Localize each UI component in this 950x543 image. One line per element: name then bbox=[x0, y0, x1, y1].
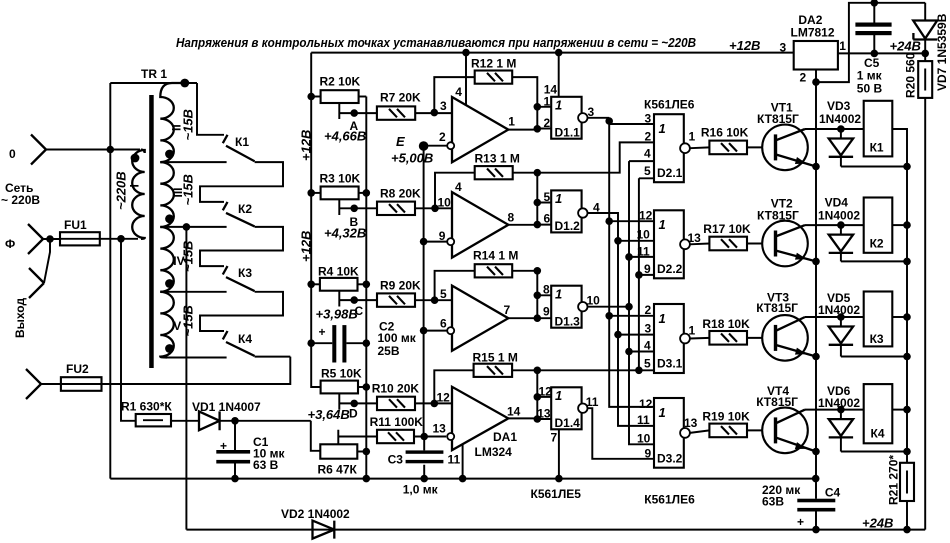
svg-text:11: 11 bbox=[586, 395, 599, 409]
capacitor C3 bbox=[420, 433, 428, 441]
op-amp U1C bbox=[452, 286, 508, 351]
wire divider vertical bbox=[365, 97, 367, 479]
svg-text:~15В: ~15В bbox=[181, 241, 196, 272]
wire D1.1 out vertical bbox=[609, 118, 654, 407]
wire top link bbox=[110, 82, 197, 84]
svg-text:1: 1 bbox=[555, 388, 562, 403]
op-amp U1A bbox=[452, 97, 508, 162]
wire output row bbox=[102, 357, 291, 384]
svg-text:1N4002: 1N4002 bbox=[818, 209, 860, 223]
relay coil K4 bbox=[864, 384, 893, 443]
svg-text:3: 3 bbox=[440, 99, 447, 113]
wire D1.4 pin7 ground bbox=[558, 429, 560, 478]
svg-text:~220В: ~220В bbox=[114, 171, 129, 210]
node R1-branch bbox=[117, 235, 125, 243]
svg-text:5: 5 bbox=[644, 357, 651, 371]
wire tap IV/V bbox=[160, 291, 226, 293]
svg-text:R11 100K: R11 100K bbox=[370, 415, 424, 429]
svg-text:13: 13 bbox=[684, 416, 698, 430]
wire D1.4 out bbox=[588, 408, 655, 459]
svg-text:12: 12 bbox=[639, 397, 653, 411]
svg-text:1: 1 bbox=[508, 115, 515, 129]
secondary winding III bbox=[160, 162, 174, 227]
svg-text:R15 1 M: R15 1 M bbox=[473, 351, 518, 365]
svg-text:FU2: FU2 bbox=[66, 362, 89, 376]
wire op3 out bbox=[508, 295, 551, 318]
op-amp U1D bbox=[452, 387, 508, 450]
svg-text:R8 20K: R8 20K bbox=[380, 187, 421, 201]
svg-text:25В: 25В bbox=[378, 344, 400, 358]
svg-text:8: 8 bbox=[508, 211, 515, 225]
svg-text:VD3: VD3 bbox=[827, 99, 851, 113]
svg-text:50 В: 50 В bbox=[857, 82, 883, 96]
wire op4 pin11 to ground bbox=[462, 444, 464, 478]
wire D2.2 pin rows bbox=[609, 221, 654, 275]
wire phase bbox=[43, 238, 60, 240]
svg-text:R10 20K: R10 20K bbox=[372, 382, 420, 396]
svg-text:1: 1 bbox=[555, 287, 562, 302]
svg-text:R16 10K: R16 10K bbox=[701, 126, 749, 140]
terminal output upper bbox=[29, 268, 44, 298]
secondary winding V bbox=[160, 292, 174, 358]
svg-text:D2.2: D2.2 bbox=[657, 262, 683, 276]
resistor R6 bbox=[320, 444, 357, 458]
node phase-branch bbox=[46, 235, 54, 243]
svg-text:D1.1: D1.1 bbox=[555, 126, 581, 140]
test point D bbox=[339, 394, 377, 410]
+12V top rail bbox=[311, 52, 794, 54]
svg-text:2: 2 bbox=[645, 130, 652, 144]
svg-text:7: 7 bbox=[551, 431, 558, 445]
svg-text:D2.1: D2.1 bbox=[657, 166, 683, 180]
core bbox=[149, 95, 154, 368]
ground rail bbox=[110, 478, 815, 480]
svg-text:К4: К4 bbox=[238, 332, 252, 346]
svg-text:D3.2: D3.2 bbox=[657, 452, 683, 466]
wire D3.1 pin rows bbox=[609, 316, 654, 352]
svg-text:10: 10 bbox=[587, 294, 601, 308]
svg-text:FU1: FU1 bbox=[64, 218, 87, 232]
svg-text:К1: К1 bbox=[870, 141, 884, 155]
svg-text:~15В: ~15В bbox=[181, 174, 196, 205]
svg-text:R4 10K: R4 10K bbox=[318, 265, 359, 279]
wire op2 direct to D2.1 pin2 bbox=[537, 142, 654, 172]
capacitor C2 bbox=[307, 339, 315, 347]
svg-text:Ф: Ф bbox=[5, 237, 15, 251]
svg-text:9: 9 bbox=[645, 447, 652, 461]
wire DA2 pin2 bbox=[815, 70, 817, 479]
svg-text:9: 9 bbox=[543, 305, 550, 319]
svg-text:D1.2: D1.2 bbox=[555, 219, 581, 233]
svg-text:10: 10 bbox=[637, 228, 651, 242]
zener VD7 bbox=[924, 3, 926, 61]
svg-text:4: 4 bbox=[455, 85, 462, 99]
svg-text:+24В: +24В bbox=[862, 516, 893, 531]
wire R20 down rail bbox=[924, 98, 926, 530]
wire op4 out bbox=[508, 397, 551, 419]
svg-text:1: 1 bbox=[555, 191, 562, 206]
capacitor C4 bbox=[815, 479, 817, 530]
node 0-junction bbox=[107, 146, 115, 154]
svg-text:5: 5 bbox=[440, 287, 447, 301]
svg-text:D: D bbox=[349, 407, 358, 421]
svg-text:К4: К4 bbox=[871, 427, 885, 441]
svg-text:6: 6 bbox=[440, 317, 447, 331]
svg-text:Выход: Выход bbox=[13, 298, 27, 338]
svg-text:9: 9 bbox=[644, 262, 651, 276]
svg-text:R12 1 M: R12 1 M bbox=[471, 57, 516, 71]
svg-text:LM324: LM324 bbox=[475, 445, 513, 459]
svg-text:12: 12 bbox=[437, 391, 451, 405]
node secondary top bbox=[180, 79, 189, 88]
wire to R6 bbox=[311, 421, 321, 451]
svg-text:R7 20K: R7 20K bbox=[380, 91, 421, 105]
svg-text:1 мк: 1 мк bbox=[857, 69, 883, 83]
svg-text:К3: К3 bbox=[238, 266, 252, 280]
svg-text:100 мк: 100 мк bbox=[378, 331, 417, 345]
svg-text:~ 220В: ~ 220В bbox=[1, 193, 40, 207]
svg-text:11: 11 bbox=[637, 413, 650, 427]
svg-text:+12В: +12В bbox=[299, 231, 314, 262]
svg-text:1: 1 bbox=[689, 130, 696, 144]
inverter D1.4 bbox=[551, 387, 581, 429]
+12V divider rail bbox=[311, 53, 320, 387]
svg-text:7: 7 bbox=[504, 303, 511, 317]
wire D1.3 out vertical bbox=[588, 306, 630, 308]
svg-text:R2 10K: R2 10K bbox=[320, 75, 361, 89]
gate D2.2 bbox=[654, 210, 684, 278]
gate D3.2 bbox=[654, 398, 684, 468]
resistor R20 bbox=[918, 61, 932, 98]
gate D3.1 bbox=[654, 304, 684, 373]
svg-text:4: 4 bbox=[644, 339, 651, 353]
svg-text:I: I bbox=[128, 184, 142, 187]
test point C bbox=[339, 291, 377, 307]
svg-text:R13 1 M: R13 1 M bbox=[475, 152, 520, 166]
svg-text:2: 2 bbox=[439, 130, 446, 144]
relay contact K1 bbox=[197, 83, 224, 135]
relay contact K3 bbox=[223, 266, 255, 291]
svg-text:+24В: +24В bbox=[890, 39, 921, 54]
svg-text:1: 1 bbox=[689, 324, 696, 338]
wire top loop bbox=[816, 3, 925, 82]
resistor R21 bbox=[906, 452, 908, 530]
wire D1.1 out bbox=[588, 118, 655, 124]
wire tap II/III bbox=[160, 161, 226, 163]
svg-text:0: 0 bbox=[9, 147, 16, 161]
secondary winding II bbox=[160, 83, 185, 162]
wire op4/x638.9 vertical bbox=[639, 178, 654, 370]
wire op1 out bbox=[508, 107, 551, 130]
svg-text:+3,64В: +3,64В bbox=[308, 407, 350, 422]
svg-text:+4,66В: +4,66В bbox=[324, 129, 366, 144]
svg-text:R21 270*: R21 270* bbox=[887, 455, 901, 505]
svg-text:E: E bbox=[396, 134, 405, 149]
svg-text:3: 3 bbox=[645, 322, 652, 336]
svg-text:11: 11 bbox=[448, 453, 461, 467]
svg-text:VD7 1N5359B: VD7 1N5359B bbox=[935, 13, 949, 91]
svg-text:1,0 мк: 1,0 мк bbox=[403, 483, 439, 497]
svg-text:8: 8 bbox=[543, 283, 550, 297]
wire E vertical bbox=[423, 146, 425, 437]
wire winding V bottom bbox=[167, 357, 227, 359]
wire op4 direct to D3.1 pin5 bbox=[537, 369, 654, 371]
svg-text:D1.3: D1.3 bbox=[555, 315, 581, 329]
svg-text:DA1: DA1 bbox=[493, 430, 517, 444]
svg-text:+5,00В: +5,00В bbox=[391, 151, 433, 166]
wire tap III/IV bbox=[160, 226, 226, 228]
wire FU1 to primary bbox=[100, 238, 138, 240]
capacitor C5 bbox=[873, 3, 875, 54]
svg-text:2: 2 bbox=[544, 116, 551, 130]
svg-text:6: 6 bbox=[544, 212, 551, 226]
svg-text:4: 4 bbox=[455, 180, 462, 194]
svg-text:К561ЛЕ6: К561ЛЕ6 bbox=[644, 493, 695, 507]
svg-text:R5 10K: R5 10K bbox=[321, 367, 362, 381]
wire sense line bbox=[185, 227, 187, 530]
svg-text:R17 10K: R17 10K bbox=[703, 222, 751, 236]
svg-text:C3: C3 bbox=[388, 453, 404, 467]
svg-text:1: 1 bbox=[659, 405, 666, 420]
wire D1.2 out vertical bbox=[588, 213, 655, 426]
svg-text:5: 5 bbox=[544, 190, 551, 204]
svg-text:R9 20K: R9 20K bbox=[380, 279, 421, 293]
svg-text:R14 1 M: R14 1 M bbox=[473, 249, 518, 263]
svg-text:КТ815Г: КТ815Г bbox=[757, 112, 799, 126]
svg-text:2: 2 bbox=[800, 71, 807, 85]
svg-text:1: 1 bbox=[839, 39, 846, 53]
svg-text:К2: К2 bbox=[870, 237, 884, 251]
wire op2 out bbox=[508, 203, 551, 225]
svg-text:+: + bbox=[220, 439, 227, 453]
svg-text:14: 14 bbox=[507, 405, 521, 419]
inverter D1.3 bbox=[551, 286, 581, 328]
svg-text:5: 5 bbox=[644, 164, 651, 178]
svg-text:+12В: +12В bbox=[299, 130, 314, 161]
primary winding I bbox=[132, 150, 145, 239]
svg-text:1: 1 bbox=[659, 121, 666, 136]
svg-text:63В: 63В bbox=[762, 495, 784, 509]
svg-text:3: 3 bbox=[780, 41, 787, 55]
svg-text:К561ЛЕ5: К561ЛЕ5 bbox=[531, 487, 582, 501]
svg-text:+: + bbox=[319, 325, 326, 339]
svg-text:+3,98В: +3,98В bbox=[316, 307, 358, 322]
svg-text:12: 12 bbox=[539, 385, 553, 399]
svg-text:К2: К2 bbox=[238, 202, 252, 216]
svg-text:63 В: 63 В bbox=[253, 458, 279, 472]
test point A bbox=[339, 104, 377, 119]
wire VT1 collector row bbox=[805, 128, 864, 130]
svg-text:~15В: ~15В bbox=[181, 109, 196, 140]
svg-text:D3.1: D3.1 bbox=[657, 357, 683, 371]
svg-text:+4,32В: +4,32В bbox=[324, 226, 366, 241]
svg-text:1N4002: 1N4002 bbox=[819, 112, 861, 126]
bottom rail +24 bbox=[186, 529, 925, 531]
svg-text:К1: К1 bbox=[235, 135, 249, 149]
relay coil K1 bbox=[864, 101, 893, 157]
secondary winding IV bbox=[160, 227, 174, 292]
inverter D1.2 bbox=[551, 190, 581, 232]
wire common vertical bbox=[109, 83, 111, 479]
svg-text:D1.4: D1.4 bbox=[555, 416, 581, 430]
capacitor C1 bbox=[234, 421, 236, 450]
test point B bbox=[339, 199, 377, 215]
svg-text:КТ815Г: КТ815Г bbox=[757, 209, 799, 223]
relay contact K2 bbox=[223, 202, 255, 227]
svg-text:TR 1: TR 1 bbox=[141, 67, 167, 81]
svg-text:VD4: VD4 bbox=[825, 196, 849, 210]
svg-text:LM7812: LM7812 bbox=[791, 26, 835, 40]
svg-text:R19 10K: R19 10K bbox=[702, 410, 750, 424]
relay coil K2 bbox=[864, 198, 893, 253]
svg-text:13: 13 bbox=[433, 422, 447, 436]
relay contact K4 bbox=[223, 331, 255, 356]
svg-text:1: 1 bbox=[555, 98, 562, 113]
op-amp U1B bbox=[452, 192, 508, 258]
svg-text:+12В: +12В bbox=[729, 38, 760, 53]
svg-text:Напряжения в контрольных точка: Напряжения в контрольных точках устанавл… bbox=[176, 35, 696, 50]
svg-text:R1 630*К: R1 630*К bbox=[121, 400, 172, 414]
wire 0 line bbox=[46, 149, 140, 151]
svg-text:4: 4 bbox=[644, 147, 651, 161]
svg-text:КТ815Г: КТ815Г bbox=[756, 395, 798, 409]
svg-text:~15В: ~15В bbox=[181, 305, 196, 336]
svg-text:3: 3 bbox=[645, 112, 652, 126]
svg-text:К561ЛЕ6: К561ЛЕ6 bbox=[644, 98, 695, 112]
svg-text:13: 13 bbox=[688, 231, 702, 245]
wire DA2 out rail bbox=[838, 52, 925, 54]
svg-text:VD2 1N4002: VD2 1N4002 bbox=[281, 507, 350, 521]
svg-text:R20 560: R20 560 bbox=[904, 52, 918, 98]
svg-text:1: 1 bbox=[659, 311, 666, 326]
svg-text:1: 1 bbox=[544, 94, 551, 108]
svg-text:1: 1 bbox=[659, 217, 666, 232]
svg-text:КТ815Г: КТ815Г bbox=[756, 301, 798, 315]
svg-text:R18 10K: R18 10K bbox=[702, 317, 750, 331]
svg-text:C4: C4 bbox=[825, 486, 841, 500]
svg-text:R6 47К: R6 47К bbox=[318, 463, 358, 477]
relay coil K3 bbox=[864, 292, 893, 347]
terminal output lower bbox=[26, 369, 41, 399]
inverter D1.1 bbox=[551, 97, 581, 139]
svg-text:10: 10 bbox=[637, 432, 651, 446]
svg-text:К3: К3 bbox=[870, 332, 884, 346]
svg-text:13: 13 bbox=[537, 407, 551, 421]
svg-text:R3 10K: R3 10K bbox=[320, 172, 361, 186]
svg-text:+: + bbox=[797, 515, 804, 529]
